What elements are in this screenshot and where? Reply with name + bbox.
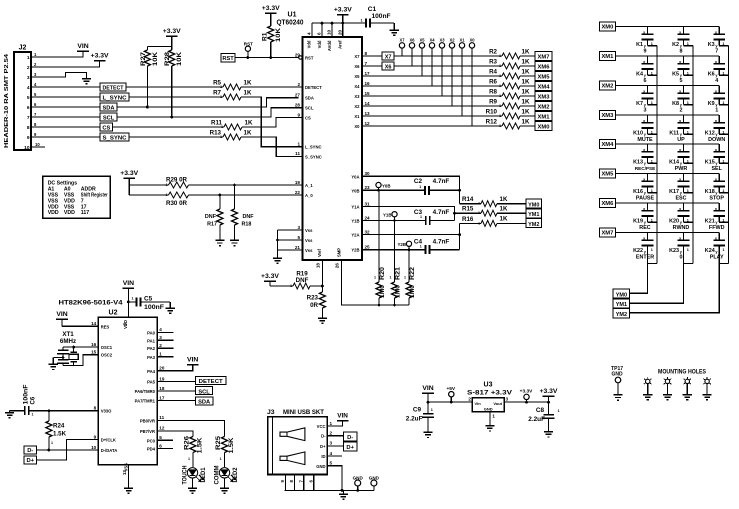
svg-text:1: 1	[492, 414, 495, 419]
svg-text:K16: K16	[633, 189, 643, 195]
wire J3 D+	[327, 445, 343, 447]
ground at LED1	[188, 488, 197, 493]
net label YM1 matrix	[613, 299, 630, 308]
wire X6 row b	[394, 65, 502, 67]
svg-text:1: 1	[431, 408, 433, 412]
svg-text:R8: R8	[489, 89, 497, 96]
testpoint X6	[409, 37, 415, 66]
svg-text:RES: RES	[101, 324, 110, 329]
svg-text:+5V: +5V	[446, 386, 455, 392]
net label D- at U2	[24, 446, 36, 454]
svg-text:1: 1	[722, 71, 724, 75]
wire U1 SMP pin	[342, 260, 410, 306]
svg-text:1M0: 1M0	[395, 284, 402, 298]
svg-text:1: 1	[32, 413, 34, 417]
wire PA2 stub	[157, 347, 173, 349]
svg-text:K7: K7	[636, 101, 643, 107]
capacitor C3 4.7nF on Y1B	[362, 209, 455, 225]
svg-text:YM2: YM2	[528, 222, 539, 228]
testpoint X2	[449, 37, 455, 106]
resistor R7 1K on L_SYNC line	[129, 89, 303, 146]
testpoint X1	[459, 37, 465, 116]
svg-text:DNF: DNF	[296, 277, 309, 284]
svg-text:TOUCH: TOUCH	[182, 466, 188, 485]
svg-text:6MHz: 6MHz	[60, 338, 76, 345]
svg-text:16: 16	[365, 81, 371, 86]
svg-text:XM3: XM3	[601, 113, 614, 119]
svg-text:COMM: COMM	[214, 466, 220, 485]
svg-text:1: 1	[558, 409, 560, 413]
svg-text:HEADER-10 RA SMT P2.54: HEADER-10 RA SMT P2.54	[4, 53, 10, 148]
svg-text:X6: X6	[385, 65, 392, 71]
svg-text:YM2: YM2	[616, 312, 627, 318]
svg-text:9: 9	[297, 112, 300, 117]
svg-text:1K: 1K	[522, 118, 530, 125]
mounting hole 1	[644, 377, 652, 394]
svg-text:J2: J2	[19, 45, 27, 52]
wire X3 row	[362, 95, 502, 97]
junction R1 RST line	[269, 56, 272, 59]
svg-text:D-: D-	[347, 435, 353, 441]
svg-text:1: 1	[51, 441, 53, 445]
wire J2 pin4	[31, 86, 100, 88]
capacitor XT1 load cap A	[57, 347, 69, 360]
wire X2 row	[362, 105, 502, 107]
svg-text:D+: D+	[320, 444, 326, 449]
svg-text:R27: R27	[140, 52, 147, 66]
wire X4 row	[362, 85, 502, 87]
capacitor C1 100nF	[360, 6, 394, 30]
svg-text:X5: X5	[354, 74, 360, 79]
svg-text:CS: CS	[102, 126, 110, 132]
resistor R3 1K	[489, 58, 535, 69]
svg-text:4: 4	[159, 327, 162, 332]
wire XM6 row	[615, 202, 719, 204]
svg-text:1: 1	[419, 185, 421, 189]
svg-text:19: 19	[159, 376, 165, 381]
net label DETECT at U2	[196, 377, 227, 386]
key K5 5	[672, 56, 693, 84]
wire J3 ID stub	[327, 455, 342, 457]
resistor R8 1K	[489, 88, 535, 99]
svg-text:PA0: PA0	[147, 330, 156, 335]
wire X7 row	[362, 55, 382, 57]
svg-text:1K: 1K	[522, 58, 530, 65]
svg-text:117: 117	[81, 210, 89, 216]
svg-text:XM4: XM4	[538, 84, 551, 90]
power +3.3V for R29 R30	[120, 170, 138, 195]
resistor R20 1M0	[374, 190, 386, 305]
key K16 PAUSE	[633, 174, 657, 202]
svg-text:XM0: XM0	[601, 25, 613, 31]
resistor R18 DNF	[232, 184, 255, 241]
resistor R25 1.5K	[215, 435, 235, 467]
svg-text:6: 6	[159, 443, 162, 448]
resistor R10 1K	[486, 108, 535, 119]
svg-text:X7: X7	[385, 55, 392, 61]
wire PB7 to R26	[157, 431, 193, 437]
svg-text:16: 16	[91, 342, 97, 347]
net label D- at J3	[343, 432, 357, 441]
svg-text:3: 3	[27, 75, 30, 81]
svg-text:+3.3V: +3.3V	[120, 170, 138, 177]
resistor R28 10K	[164, 47, 183, 117]
wire U1 Vdd rail	[312, 22, 366, 37]
svg-text:SCL: SCL	[103, 116, 115, 122]
net label YM1	[526, 209, 542, 218]
svg-text:R20: R20	[379, 266, 386, 280]
svg-text:10K: 10K	[176, 52, 183, 66]
svg-text:K1: K1	[636, 42, 643, 48]
wire SCL line to U1	[117, 108, 303, 117]
testpoint GND 2	[369, 475, 380, 490]
svg-text:1K: 1K	[245, 119, 253, 126]
svg-text:1: 1	[499, 74, 501, 78]
svg-text:CS: CS	[305, 116, 311, 121]
svg-text:Vdd: Vdd	[307, 40, 312, 48]
resistor R27 10K	[140, 47, 159, 107]
svg-text:+3.3V: +3.3V	[262, 5, 280, 12]
svg-text:3: 3	[330, 441, 333, 446]
connector J3 MINI USB SKT body	[267, 409, 327, 475]
svg-text:K11: K11	[669, 130, 679, 136]
svg-text:1: 1	[420, 244, 422, 248]
wire J2 pin5	[31, 96, 100, 98]
svg-text:20: 20	[159, 366, 165, 371]
svg-text:1K: 1K	[522, 48, 530, 55]
svg-text:7: 7	[123, 323, 128, 326]
key K15 SEL	[705, 144, 728, 172]
svg-text:Y0B: Y0B	[351, 188, 359, 193]
svg-text:R30 0R: R30 0R	[166, 200, 188, 207]
wire D+ to U2	[36, 440, 98, 460]
net label XM5 matrix	[600, 169, 616, 178]
svg-text:Vref: Vref	[317, 248, 322, 257]
svg-text:VIN: VIN	[187, 356, 198, 363]
svg-text:RST: RST	[244, 42, 253, 47]
wire PA0 stub	[157, 331, 173, 333]
svg-text:LED2: LED2	[233, 467, 239, 483]
net label XM4 matrix	[600, 140, 616, 149]
net label D+ at J3	[343, 442, 357, 451]
svg-text:7: 7	[715, 48, 718, 54]
wire X6 row	[362, 65, 382, 67]
svg-text:ESC: ESC	[675, 195, 686, 201]
ground at TP17	[613, 395, 622, 400]
resistor R24 1.5K	[46, 411, 67, 450]
ground at U2 VSS	[124, 488, 133, 493]
svg-text:Y0A: Y0A	[351, 174, 359, 179]
svg-text:XM5: XM5	[538, 74, 551, 80]
key K6 4	[708, 56, 729, 84]
wire U3 Vout	[504, 401, 550, 404]
power +3.3V at U3	[540, 388, 558, 402]
svg-text:MINI USB SKT: MINI USB SKT	[283, 409, 325, 416]
U2 left pin names	[91, 321, 117, 453]
ground at mounting hole 4	[703, 395, 712, 400]
wire XM3 row	[615, 114, 719, 116]
testpoint X5	[419, 37, 425, 76]
ground at C5	[166, 308, 175, 313]
svg-text:2.2uF: 2.2uF	[406, 415, 423, 422]
key K24 PLAY	[705, 233, 728, 264]
resistor R19 DNF	[270, 270, 322, 289]
svg-text:9: 9	[27, 135, 30, 141]
svg-text:R1: R1	[262, 32, 269, 41]
wire J3 ground rail	[285, 489, 374, 492]
svg-text:100nF: 100nF	[23, 384, 29, 404]
svg-text:K23: K23	[669, 248, 679, 254]
svg-text:6: 6	[27, 105, 30, 111]
wire U3 GND pin	[489, 412, 491, 426]
svg-text:U1: U1	[288, 12, 297, 19]
resistor R26 1.5K	[183, 435, 203, 467]
svg-text:3: 3	[159, 335, 162, 340]
key K18 STOP	[705, 174, 728, 202]
svg-text:100nF: 100nF	[144, 304, 164, 311]
svg-text:2: 2	[27, 65, 30, 71]
svg-text:YM1: YM1	[616, 302, 627, 308]
svg-text:1: 1	[651, 42, 653, 46]
svg-text:1: 1	[722, 130, 724, 134]
net label L_SYNC	[100, 93, 129, 102]
svg-text:8: 8	[680, 48, 683, 54]
svg-text:1: 1	[330, 421, 333, 426]
svg-text:VIN: VIN	[56, 311, 67, 318]
svg-text:1: 1	[687, 248, 689, 252]
wire OSC1	[63, 346, 98, 348]
svg-text:PA6/TMR0: PA6/TMR0	[135, 389, 156, 394]
svg-text:5: 5	[297, 235, 300, 240]
U1 top pin names	[306, 29, 342, 51]
svg-text:Aref: Aref	[338, 40, 343, 49]
wire Y0A	[362, 176, 461, 203]
svg-text:1: 1	[360, 19, 362, 23]
svg-text:Y1A: Y1A	[351, 205, 359, 210]
net label YM0 matrix	[613, 289, 630, 298]
svg-text:C9: C9	[413, 406, 422, 413]
svg-text:U3: U3	[484, 381, 493, 388]
svg-text:1: 1	[687, 189, 689, 193]
ground at J3	[339, 490, 348, 499]
key K20 RWND	[669, 203, 693, 231]
svg-text:XM1: XM1	[601, 54, 614, 60]
svg-text:SDA: SDA	[198, 400, 210, 406]
J2 pin numbers	[24, 52, 40, 151]
svg-text:21: 21	[295, 245, 301, 250]
svg-text:DC Settings: DC Settings	[48, 181, 78, 187]
mounting holes label	[658, 370, 706, 376]
svg-text:R15: R15	[462, 206, 474, 213]
svg-text:Shift Register: Shift Register	[81, 193, 108, 199]
svg-text:12: 12	[159, 426, 165, 431]
svg-text:1: 1	[651, 189, 653, 193]
svg-text:OSC2: OSC2	[101, 353, 113, 358]
resistor R21 1M0	[390, 221, 402, 306]
svg-text:K21: K21	[705, 218, 715, 224]
svg-text:Vss: Vss	[305, 248, 313, 253]
svg-text:+3.3V: +3.3V	[540, 388, 558, 395]
svg-text:1: 1	[722, 248, 724, 252]
svg-text:14: 14	[365, 101, 371, 106]
wire RES	[62, 325, 98, 327]
svg-text:RWND: RWND	[673, 225, 690, 231]
svg-text:VIN: VIN	[77, 43, 88, 50]
wire J2 pin2 to +3.3V	[31, 61, 100, 68]
wire RST to U1	[235, 57, 299, 59]
svg-text:Vout: Vout	[493, 401, 502, 406]
key K14 PWR	[669, 144, 693, 172]
svg-text:4: 4	[27, 85, 30, 91]
svg-text:Y2B: Y2B	[351, 248, 359, 253]
svg-text:OSC1: OSC1	[101, 345, 113, 350]
svg-text:1: 1	[478, 202, 480, 206]
svg-text:X5: X5	[419, 37, 425, 42]
wire X7 row b	[394, 55, 502, 57]
mounting hole 3	[684, 377, 692, 394]
svg-text:K22: K22	[633, 248, 643, 254]
svg-text:D+/CLK: D+/CLK	[101, 438, 116, 443]
resistor R13 1K on S_SYNC line	[129, 129, 303, 156]
svg-text:PAUSE: PAUSE	[636, 195, 655, 201]
svg-text:1: 1	[220, 457, 222, 461]
resistor R14 1K	[460, 196, 527, 207]
svg-text:Vss: Vss	[305, 228, 313, 233]
key K11 UP	[669, 115, 693, 143]
svg-text:4: 4	[330, 451, 333, 456]
svg-text:0: 0	[680, 254, 683, 260]
svg-text:X0: X0	[469, 37, 475, 42]
power VIN above U2	[123, 280, 135, 317]
connector J2 HEADER-10 RA SMT P2.54	[4, 45, 31, 151]
net label XM0 matrix	[600, 22, 616, 31]
svg-text:2: 2	[330, 431, 333, 436]
svg-text:1: 1	[420, 215, 422, 219]
svg-text:ENTER: ENTER	[636, 254, 654, 260]
svg-text:19: 19	[295, 180, 301, 185]
testpoint X0	[469, 37, 475, 126]
J3 pin names	[316, 421, 332, 469]
power +3.3V for R19	[261, 273, 279, 286]
net label XM0	[535, 121, 552, 130]
svg-text:XM0: XM0	[538, 124, 550, 130]
svg-text:13: 13	[365, 111, 371, 116]
svg-text:2: 2	[680, 107, 683, 113]
svg-text:S_SYNC: S_SYNC	[305, 154, 322, 159]
net label SDA at U2	[196, 397, 213, 406]
svg-text:2: 2	[297, 82, 300, 87]
wire PA4 to VIN	[157, 365, 192, 371]
svg-text:D-: D-	[27, 448, 33, 454]
wire J2 pin10 stub	[31, 146, 45, 148]
svg-text:1: 1	[499, 104, 501, 108]
svg-text:R3: R3	[489, 59, 497, 66]
svg-text:10: 10	[327, 29, 332, 35]
wire J2 pin3 to ground	[31, 73, 87, 79]
svg-text:XM5: XM5	[601, 172, 614, 178]
wire X0 row	[362, 125, 502, 127]
svg-text:ID: ID	[321, 454, 325, 459]
mounting hole 4	[703, 377, 711, 394]
svg-text:XM2: XM2	[538, 104, 550, 110]
svg-text:C2: C2	[414, 178, 423, 185]
net label XM7 matrix	[600, 228, 616, 237]
svg-text:R18: R18	[242, 222, 252, 228]
wire Y1A	[362, 207, 456, 221]
USB contact lower	[280, 452, 305, 465]
net label XM6 matrix	[600, 199, 616, 208]
key K22 ENTER	[633, 233, 657, 264]
svg-text:4: 4	[715, 78, 718, 84]
svg-text:R29 0R: R29 0R	[166, 177, 188, 184]
net label XM2	[535, 101, 552, 110]
testpoint X4	[429, 37, 435, 86]
svg-text:K9: K9	[708, 101, 715, 107]
svg-text:XM6: XM6	[538, 64, 551, 70]
svg-text:1: 1	[404, 276, 406, 280]
svg-text:R28: R28	[164, 52, 171, 66]
net label XM1 matrix	[600, 52, 616, 61]
svg-text:HT82K96-5016-V4: HT82K96-5016-V4	[59, 300, 123, 307]
svg-text:13: 13	[122, 470, 127, 476]
key K9 1	[708, 86, 729, 114]
testpoint X3	[439, 37, 445, 96]
svg-text:X3: X3	[439, 37, 445, 42]
svg-text:1M0: 1M0	[409, 284, 416, 298]
svg-text:X6: X6	[409, 37, 415, 42]
svg-text:1: 1	[722, 189, 724, 193]
svg-text:DOWN: DOWN	[708, 137, 725, 143]
svg-text:SCL: SCL	[305, 106, 314, 111]
net label X7	[382, 52, 394, 61]
svg-text:4: 4	[306, 32, 311, 35]
resistor R16 1K	[460, 216, 526, 227]
svg-text:9: 9	[644, 48, 647, 54]
svg-text:8: 8	[365, 51, 368, 56]
wire XM0 row	[615, 26, 719, 28]
svg-text:1: 1	[188, 457, 190, 461]
svg-text:X1: X1	[354, 114, 360, 119]
svg-text:VDD: VDD	[48, 210, 59, 216]
svg-text:1K: 1K	[244, 89, 252, 96]
wire PA5	[157, 381, 195, 383]
net label CS	[100, 123, 113, 132]
svg-text:1: 1	[27, 55, 30, 61]
svg-text:1K: 1K	[244, 79, 252, 86]
USB contact upper	[280, 428, 305, 441]
svg-text:R2: R2	[489, 49, 497, 56]
svg-text:1: 1	[374, 276, 376, 280]
svg-text:1: 1	[687, 159, 689, 163]
svg-text:J3: J3	[267, 409, 275, 416]
key K1 9	[636, 27, 657, 55]
svg-text:X4: X4	[354, 84, 360, 89]
svg-text:K6: K6	[708, 71, 715, 77]
svg-text:1: 1	[499, 114, 501, 118]
svg-text:A_0: A_0	[305, 193, 313, 198]
svg-text:K24: K24	[705, 248, 715, 254]
svg-text:Y0B: Y0B	[382, 184, 391, 189]
net label D+ at U2	[24, 456, 36, 464]
svg-text:S_SYNC: S_SYNC	[103, 136, 127, 142]
net label XM4	[535, 81, 552, 90]
svg-text:1: 1	[722, 218, 724, 222]
net label S_SYNC	[100, 133, 129, 142]
power +3.3V above R28	[163, 28, 181, 46]
svg-text:REC: REC	[639, 225, 650, 231]
svg-text:Vin: Vin	[475, 401, 482, 406]
net label SDA	[100, 103, 117, 112]
